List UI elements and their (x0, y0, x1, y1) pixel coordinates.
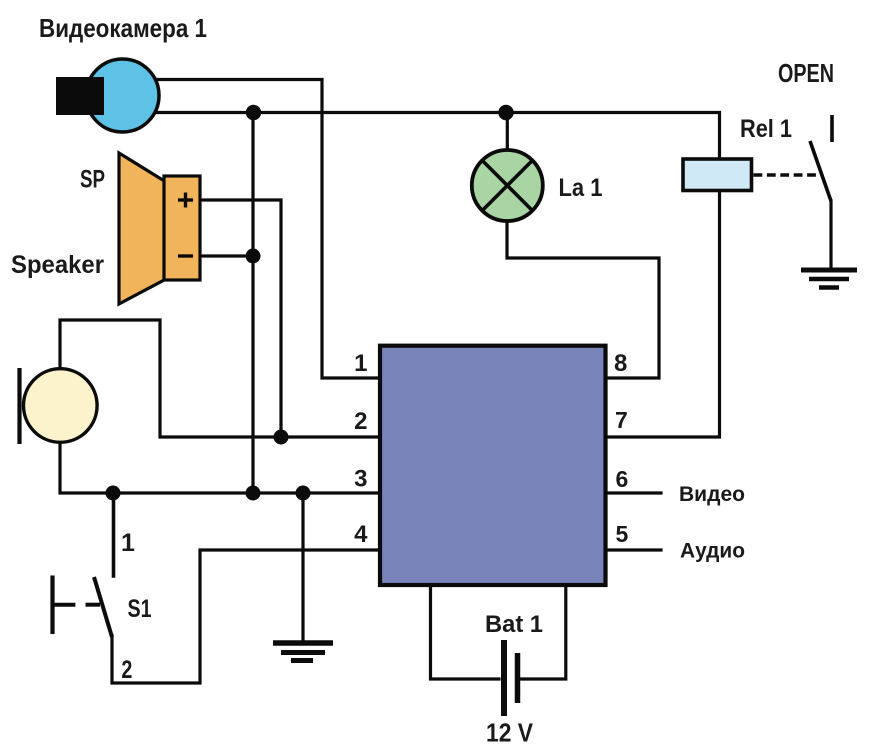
wire camera top to pin 1 (122, 80, 379, 379)
wire pin 7 to relay bottom (605, 192, 720, 437)
camera CAM1 circle (86, 59, 159, 132)
relay contact fixed terminal (830, 115, 834, 142)
svg-text:Bat 1: Bat 1 (485, 611, 543, 638)
battery Bat1 short plate (515, 653, 521, 703)
microphone M1 bar (17, 368, 21, 444)
svg-text:1: 1 (121, 529, 135, 557)
svg-text:Speaker: Speaker (11, 251, 104, 279)
switch S1 blade (94, 577, 112, 637)
svg-text:La 1: La 1 (559, 174, 603, 202)
relay Rel1 coil box (683, 159, 752, 191)
svg-text:Аудио: Аудио (680, 539, 745, 563)
svg-text:12 V: 12 V (486, 718, 534, 746)
wire relay contact to ground (829, 201, 832, 268)
wire battery right (521, 585, 566, 679)
battery Bat1 long plate (501, 640, 507, 716)
svg-text:5: 5 (616, 521, 629, 547)
ground center (273, 643, 333, 661)
wire battery left (431, 585, 500, 679)
wire lamp top to bus (506, 113, 509, 149)
wire speaker minus to node (199, 254, 253, 257)
svg-text:2: 2 (354, 408, 367, 435)
wire ground branch from pin3 line (301, 493, 304, 641)
junction node net column on pin3 line (246, 486, 261, 501)
svg-text:OPEN: OPEN (778, 58, 834, 88)
ground right (relay) (801, 270, 857, 288)
lamp La1 cross (482, 160, 532, 210)
svg-text:6: 6 (616, 466, 629, 492)
wire camera right bus to relay (122, 113, 720, 160)
wire pin 8 to lamp bottom (507, 222, 659, 378)
svg-text:1: 1 (354, 350, 367, 377)
wire mic top to pin 2 (60, 320, 379, 437)
speaker plus sign (178, 193, 193, 208)
svg-text:Видео: Видео (679, 482, 745, 506)
microphone M1 circle (24, 369, 98, 443)
junction node ground branch on pin3 line (296, 486, 311, 501)
speaker minus sign (178, 254, 193, 257)
svg-text:4: 4 (354, 521, 368, 548)
wire mic bottom to pin 3 (60, 441, 379, 493)
lamp La1 circle (472, 150, 543, 221)
camera CAM1 lens block (56, 77, 104, 115)
svg-text:Rel 1: Rel 1 (740, 115, 792, 143)
speaker SP horn (119, 153, 166, 304)
wire switch terminal 1 (112, 493, 116, 576)
wire speaker plus to pin2 line (199, 200, 281, 437)
svg-text:SP: SP (80, 166, 105, 194)
wire switch terminal 2 to pin 4 (112, 550, 379, 683)
wire pin 5 audio (605, 548, 661, 551)
junction node lamp top (498, 105, 513, 120)
speaker SP body (164, 176, 200, 280)
junction node speaker minus (246, 249, 261, 264)
junction node camera bus / speaker column (246, 105, 261, 120)
svg-text:7: 7 (615, 407, 628, 433)
relay contact blade (810, 141, 831, 201)
svg-text:3: 3 (354, 466, 367, 493)
junction node speaker plus on pin2 line (274, 430, 289, 445)
svg-text:2: 2 (121, 656, 132, 684)
relay actuator dashed link (754, 173, 821, 176)
svg-text:S1: S1 (128, 595, 152, 623)
op-amp style IC U1 (380, 346, 606, 585)
svg-text:8: 8 (614, 350, 627, 377)
switch S1 actuator line (53, 603, 75, 607)
junction node switch on pin3 line (106, 486, 121, 501)
switch S1 pole bar (50, 576, 54, 635)
svg-text:Видеокамера 1: Видеокамера 1 (39, 13, 207, 43)
wire vertical net from camera bus down to pin3 line (251, 112, 254, 493)
wire pin 6 video (605, 491, 661, 494)
